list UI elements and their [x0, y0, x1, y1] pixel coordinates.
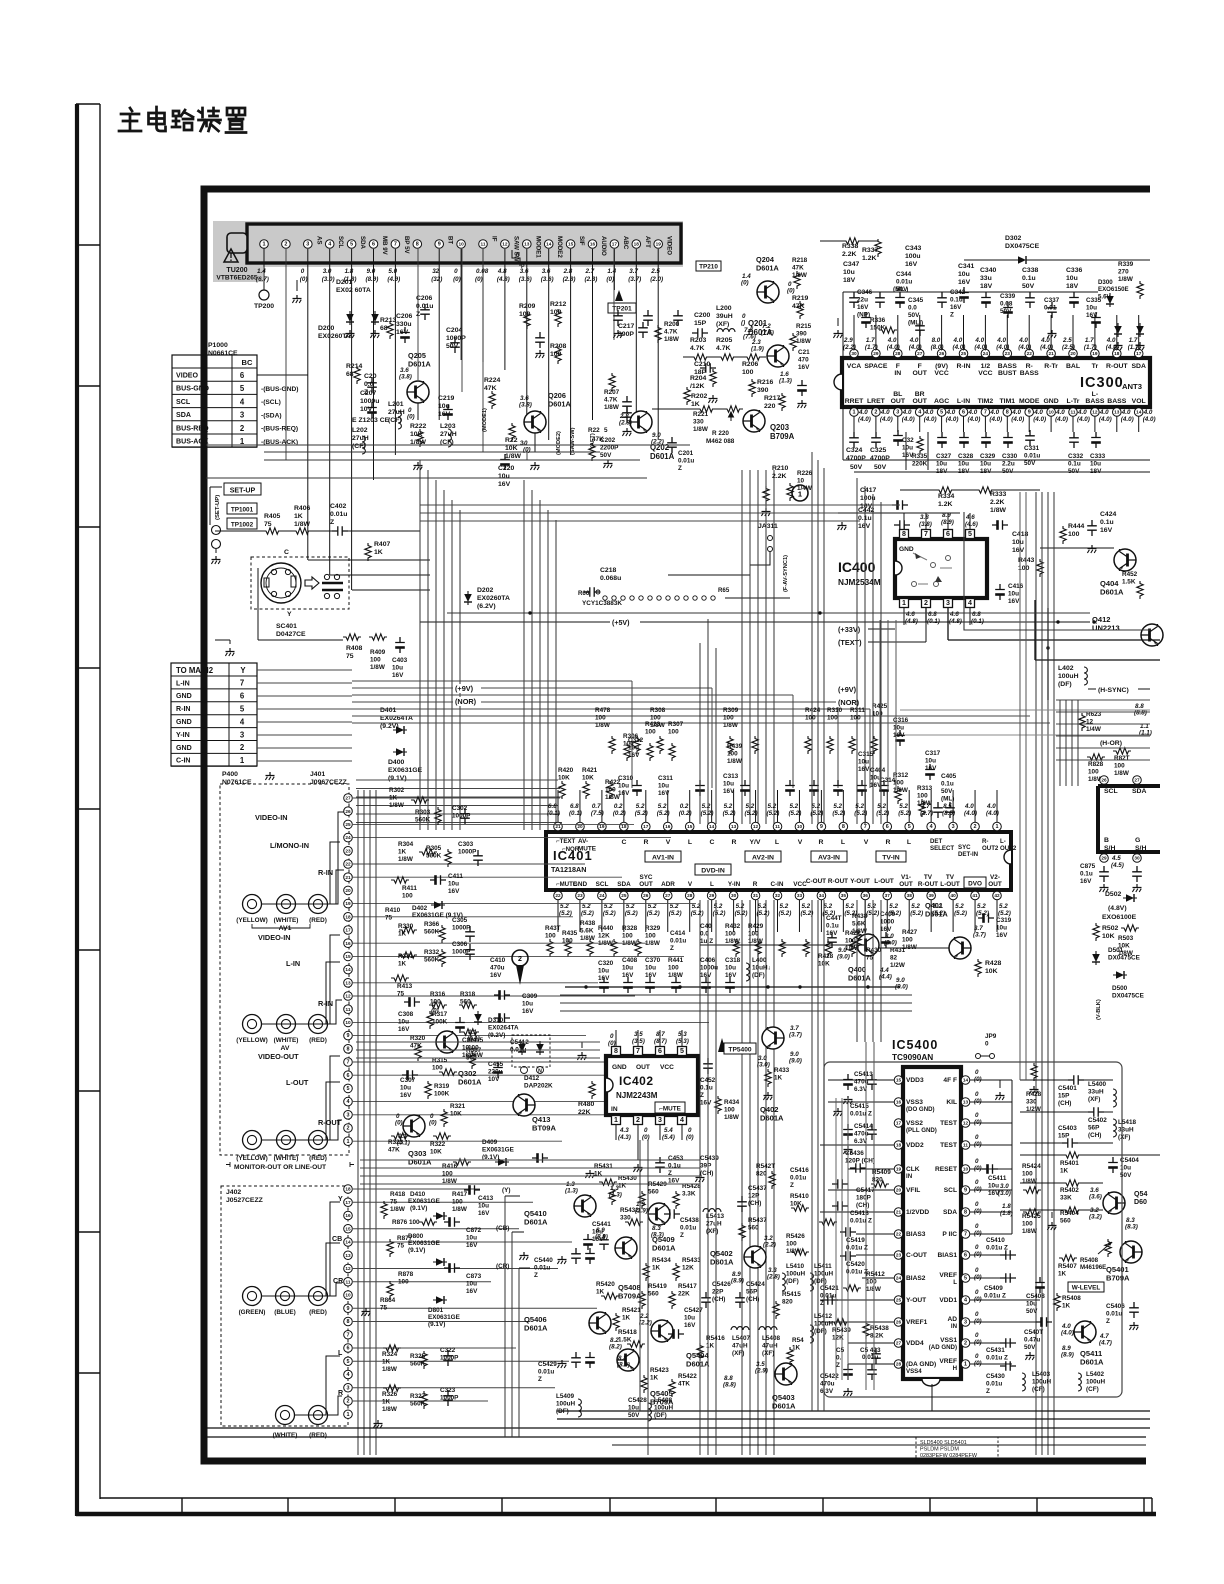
svg-text:5.6K: 5.6K — [580, 927, 594, 934]
capacitor C309 — [494, 1013, 510, 1023]
svg-text:4.0: 4.0 — [1055, 409, 1065, 416]
svg-text:(4.0): (4.0) — [1055, 416, 1068, 423]
svg-text:24: 24 — [345, 835, 351, 840]
svg-text:(3.2): (3.2) — [1089, 1214, 1102, 1221]
svg-text:(4.6): (4.6) — [965, 521, 978, 528]
svg-text:C338: C338 — [1022, 267, 1039, 274]
svg-text:24: 24 — [896, 1276, 902, 1281]
IC5400 pin 3 — [961, 1318, 970, 1327]
svg-text:R: R — [886, 839, 891, 846]
svg-text:YCY1C3883K: YCY1C3883K — [582, 600, 622, 607]
svg-text:10u: 10u — [980, 460, 991, 467]
svg-text:22K: 22K — [678, 1290, 690, 1297]
svg-text:C44T: C44T — [826, 915, 842, 922]
svg-text:TU200: TU200 — [226, 266, 247, 274]
svg-text:47K: 47K — [792, 303, 805, 310]
transistor Q413 — [513, 1094, 535, 1116]
inductor L5418 — [1113, 1119, 1116, 1137]
resistor R5429 — [639, 1191, 645, 1209]
svg-text:R366: R366 — [424, 921, 440, 928]
wire vbundle3 — [741, 470, 743, 824]
tuner pin 16 — [588, 240, 597, 249]
svg-text:68: 68 — [346, 371, 354, 378]
resistor R878 — [387, 1281, 393, 1299]
svg-text:C409: C409 — [880, 911, 896, 918]
svg-text:R330: R330 — [398, 923, 414, 930]
wire tuner pin 13 — [526, 249, 528, 415]
svg-text:R430: R430 — [866, 947, 882, 954]
svg-text:(8.3): (8.3) — [651, 1232, 664, 1239]
svg-text:0: 0 — [454, 268, 458, 275]
resistor R322 — [433, 1133, 451, 1139]
wire pin1 to TP200 — [263, 248, 265, 290]
svg-text:BASS: BASS — [1020, 370, 1039, 377]
svg-text:VOL: VOL — [1132, 398, 1146, 405]
ground gC876 — [1132, 884, 1141, 892]
svg-text:6.8: 6.8 — [570, 803, 579, 810]
capacitor C5417h — [832, 1179, 848, 1189]
svg-text:BUST: BUST — [998, 370, 1017, 377]
svg-text:(CH): (CH) — [856, 1202, 869, 1209]
resistor R302 — [411, 797, 429, 803]
svg-text:1.8: 1.8 — [1002, 1203, 1011, 1210]
tuner TU200 gray background — [213, 221, 683, 267]
resistor R409 — [369, 634, 387, 640]
svg-text:EXO6100E: EXO6100E — [1102, 914, 1137, 921]
J402 pin 12 — [344, 1264, 353, 1273]
svg-text:(4.8): (4.8) — [497, 276, 510, 283]
svg-text:5.2: 5.2 — [845, 903, 854, 910]
svg-text:R328: R328 — [622, 925, 638, 932]
svg-text:M462 088: M462 088 — [706, 438, 735, 445]
svg-text:C5408: C5408 — [1026, 1293, 1045, 1300]
IC300 bottom pin 9 — [1025, 408, 1034, 417]
IC300 bottom pin 6 — [959, 408, 968, 417]
IC300 top pin 18 — [1113, 349, 1122, 358]
wire hsync gray — [900, 709, 1150, 711]
IC401 box TV-IN — [876, 851, 906, 862]
svg-text:(6.7): (6.7) — [256, 276, 269, 283]
svg-text:4.7K: 4.7K — [716, 345, 730, 352]
svg-text:10uH↓: 10uH↓ — [752, 964, 771, 971]
svg-text:12: 12 — [502, 242, 508, 247]
svg-text:100: 100 — [668, 728, 679, 735]
svg-text:330: 330 — [620, 1214, 631, 1221]
svg-text:(1.8): (1.8) — [1000, 1210, 1013, 1217]
J401 pin 20 — [344, 886, 353, 895]
wire ic300 top bus — [843, 291, 1098, 293]
svg-text:L5408: L5408 — [762, 1335, 780, 1342]
svg-text:R416: R416 — [442, 1163, 458, 1170]
svg-text:P IIC: P IIC — [942, 1231, 957, 1238]
IC401 bottom pin 39 — [927, 891, 936, 900]
svg-text:27: 27 — [1134, 778, 1140, 783]
tuner pin 11 — [479, 240, 488, 249]
svg-text:18: 18 — [1114, 351, 1120, 356]
svg-text:TP201: TP201 — [612, 306, 632, 313]
IC402 pin 7 — [634, 1047, 643, 1056]
svg-text:1K: 1K — [1062, 1302, 1071, 1309]
capacitor C206a — [400, 327, 410, 343]
svg-text:10u: 10u — [893, 724, 904, 731]
svg-text:3.5: 3.5 — [634, 1031, 643, 1038]
svg-text:10u: 10u — [658, 782, 669, 789]
svg-text:C346: C346 — [857, 289, 873, 296]
capacitor C5409c — [1000, 1273, 1016, 1283]
svg-text:14: 14 — [345, 967, 351, 972]
svg-text:C5440: C5440 — [534, 1257, 553, 1264]
svg-text:R876 100: R876 100 — [392, 1219, 420, 1226]
svg-text:R305: R305 — [426, 845, 442, 852]
svg-text:(4.0): (4.0) — [953, 344, 966, 351]
svg-text:VSS3: VSS3 — [906, 1099, 923, 1106]
J401 pin 3 — [344, 1111, 353, 1120]
svg-text:6: 6 — [346, 1346, 349, 1352]
svg-text:R421: R421 — [582, 767, 598, 774]
inductor L201 — [398, 411, 401, 429]
svg-text:SDA: SDA — [1132, 788, 1146, 795]
svg-text:(ML ): (ML ) — [908, 319, 923, 326]
svg-text:C5429: C5429 — [538, 1361, 557, 1368]
svg-text:1K: 1K — [652, 1264, 661, 1271]
svg-text:4.0: 4.0 — [924, 409, 934, 416]
svg-text:(+9V): (+9V) — [455, 684, 474, 693]
svg-text:(5.2): (5.2) — [998, 910, 1011, 917]
svg-text:BASS: BASS — [1085, 398, 1104, 405]
svg-text:50V: 50V — [874, 464, 887, 471]
ground g1 — [535, 350, 544, 358]
svg-text:28: 28 — [895, 351, 901, 356]
svg-text:10u: 10u — [684, 1314, 695, 1321]
svg-text:8: 8 — [614, 1047, 618, 1055]
resistor R313c — [919, 799, 925, 817]
svg-text:180P: 180P — [856, 1194, 872, 1201]
svg-text:0.01u: 0.01u — [862, 1354, 878, 1361]
ground gC214 — [797, 400, 806, 408]
IC5400 pin 9 — [961, 1186, 970, 1195]
IC5400 pin 26 — [894, 1318, 903, 1327]
svg-text:(8.9): (8.9) — [366, 276, 379, 283]
wire vmid — [699, 643, 701, 824]
wire hbus main2 — [257, 669, 352, 671]
svg-text:7: 7 — [924, 530, 928, 538]
svg-text:0.01u Z: 0.01u Z — [984, 1292, 1006, 1299]
svg-text:4: 4 — [240, 397, 245, 406]
transistor Q203 — [743, 410, 765, 432]
svg-text:10u: 10u — [438, 403, 450, 410]
svg-text:JA311: JA311 — [758, 523, 778, 530]
svg-text:14: 14 — [345, 1240, 351, 1245]
svg-text:2: 2 — [874, 410, 877, 416]
svg-text:-(BUS-GND): -(BUS-GND) — [261, 386, 298, 393]
svg-text:1/2VDD: 1/2VDD — [906, 1209, 929, 1216]
J402 pin 14 — [344, 1238, 353, 1247]
svg-text:VIDEO-IN: VIDEO-IN — [258, 933, 291, 942]
svg-text:6: 6 — [886, 824, 889, 830]
svg-text:47K: 47K — [592, 436, 604, 443]
svg-text:1/8W: 1/8W — [389, 802, 404, 809]
transistor Q204 — [757, 281, 779, 303]
svg-text:(4.0): (4.0) — [1011, 416, 1024, 423]
wire hbus mid — [356, 779, 558, 781]
svg-text:AFT: AFT — [644, 236, 651, 248]
svg-text:47uH: 47uH — [732, 1342, 748, 1349]
svg-text:(4.0): (4.0) — [964, 810, 977, 817]
resistor R5420 — [601, 1293, 619, 1299]
capacitor C325 — [871, 432, 881, 448]
svg-text:15P: 15P — [1058, 1092, 1070, 1099]
svg-text:100K: 100K — [434, 1090, 450, 1097]
svg-text:Z: Z — [538, 1376, 542, 1383]
svg-text:18V: 18V — [980, 283, 993, 290]
svg-text:1/8W: 1/8W — [505, 453, 521, 460]
svg-text:100: 100 — [893, 779, 904, 786]
svg-text:47K: 47K — [388, 1146, 400, 1153]
svg-text:10: 10 — [963, 1167, 969, 1172]
IC5400 pin 4 — [961, 1296, 970, 1305]
svg-text:10: 10 — [1048, 410, 1054, 415]
svg-text:390: 390 — [796, 330, 807, 337]
svg-text:R332: R332 — [424, 949, 440, 956]
testpoint circles — [212, 526, 221, 535]
resistor R5434 — [643, 1263, 649, 1281]
svg-text:1K: 1K — [691, 401, 700, 408]
svg-text:0.01u: 0.01u — [330, 511, 347, 518]
svg-text:35: 35 — [841, 893, 847, 898]
capacitor C402 — [332, 526, 348, 536]
wire setup — [210, 486, 222, 488]
svg-text:SLD5400 SLD5401: SLD5400 SLD5401 — [920, 1440, 967, 1446]
svg-text:1000P: 1000P — [440, 1354, 459, 1361]
svg-text:5.6K: 5.6K — [852, 920, 866, 927]
svg-text:OUT: OUT — [912, 370, 927, 377]
connector J402 dashed box — [221, 1186, 348, 1426]
svg-text:(3.8): (3.8) — [399, 374, 412, 381]
svg-text:C305: C305 — [452, 917, 468, 924]
inductor L200 — [717, 329, 735, 332]
svg-text:N: N — [538, 1069, 542, 1075]
svg-text:R-IN: R-IN — [318, 868, 333, 877]
svg-text:16V: 16V — [950, 304, 962, 311]
svg-text:R202: R202 — [691, 393, 708, 400]
svg-text:C336: C336 — [1066, 267, 1083, 274]
svg-text:(9.2V): (9.2V) — [488, 1032, 505, 1039]
svg-text:560K: 560K — [424, 956, 440, 963]
svg-text:R5421: R5421 — [622, 1307, 641, 1314]
svg-text:1000P: 1000P — [446, 335, 466, 342]
svg-text:C332: C332 — [1068, 453, 1084, 460]
IC400 pin 6 — [944, 530, 953, 539]
wire tuner pin 6 — [373, 249, 375, 480]
svg-text:R5410: R5410 — [790, 1193, 809, 1200]
capacitor C324 — [849, 432, 859, 448]
svg-text:560: 560 — [1060, 1217, 1071, 1224]
svg-text:C-OUT: C-OUT — [806, 878, 826, 885]
svg-text:IC402: IC402 — [619, 1074, 654, 1088]
svg-text:BL: BL — [893, 391, 902, 398]
svg-text:R54: R54 — [792, 1337, 804, 1344]
IC5400 pin 6 — [961, 1251, 970, 1260]
svg-text:27: 27 — [665, 893, 671, 898]
ground gC875 — [1099, 884, 1108, 892]
IC401 top pin 8 — [839, 822, 848, 831]
capacitor C347 — [849, 292, 859, 308]
diode D301b — [1136, 323, 1144, 337]
svg-text:22K: 22K — [578, 1109, 591, 1116]
svg-text:L402: L402 — [1058, 665, 1074, 672]
wire vright — [1019, 492, 1021, 1080]
wire w3 — [352, 589, 430, 591]
svg-text:100uH: 100uH — [1086, 1378, 1105, 1385]
svg-text:BIAS3: BIAS3 — [906, 1231, 926, 1238]
resistor R502 — [1093, 923, 1099, 941]
svg-text:L-IN: L-IN — [957, 398, 970, 405]
resistor R317 — [427, 1011, 433, 1029]
svg-text:N: N — [516, 252, 520, 258]
svg-text:50V: 50V — [628, 1412, 640, 1419]
svg-text:C5402: C5402 — [1088, 1117, 1107, 1124]
resistor R321 — [441, 1109, 447, 1127]
svg-text:(1.9): (1.9) — [635, 1208, 648, 1215]
capacitor cm2 — [571, 1352, 581, 1368]
svg-text:D502: D502 — [1105, 891, 1122, 898]
svg-text:(9.1V): (9.1V) — [388, 775, 407, 782]
svg-text:4.0: 4.0 — [1099, 409, 1109, 416]
svg-text:0.1u: 0.1u — [1080, 870, 1093, 877]
IC300 bottom pin 14 — [1134, 408, 1143, 417]
svg-text:R215: R215 — [796, 323, 812, 330]
svg-text:P: P — [521, 264, 525, 270]
svg-text:0.068u: 0.068u — [600, 575, 621, 582]
svg-text:(8.8): (8.8) — [617, 1362, 630, 1369]
svg-text:18V: 18V — [1090, 468, 1102, 475]
svg-text:C347: C347 — [843, 261, 860, 268]
coil L5407 — [731, 1327, 749, 1330]
resistor R443 — [1037, 559, 1043, 577]
svg-text:UN2213: UN2213 — [1092, 624, 1120, 633]
J402 pin 3 — [344, 1383, 353, 1392]
svg-text:C5409: C5409 — [984, 1285, 1003, 1292]
svg-text:C307: C307 — [400, 1077, 416, 1084]
svg-text:16: 16 — [665, 824, 671, 829]
wire y513 — [838, 512, 960, 514]
svg-text:(4.0): (4.0) — [946, 416, 959, 423]
svg-text:3: 3 — [964, 1320, 967, 1326]
svg-text:100: 100 — [742, 369, 754, 376]
J401 pin 2 — [344, 1124, 353, 1133]
svg-text:16: 16 — [345, 1213, 351, 1218]
wire bottom line 5 — [612, 1444, 1146, 1446]
svg-text:1: 1 — [346, 1412, 349, 1418]
svg-text:2: 2 — [284, 242, 287, 248]
svg-text:1/8W: 1/8W — [1114, 770, 1129, 777]
svg-text:1.5K: 1.5K — [1122, 578, 1136, 585]
svg-text:JP9: JP9 — [985, 1033, 997, 1040]
svg-text:3: 3 — [240, 411, 245, 420]
rca jack AV1 white — [277, 895, 296, 914]
wire p1000 video — [257, 374, 308, 376]
svg-text:C220: C220 — [498, 465, 515, 472]
svg-text:R207: R207 — [604, 389, 620, 396]
svg-text:MODE2: MODE2 — [556, 236, 563, 258]
warning triangle — [224, 249, 238, 262]
svg-text:R5431: R5431 — [594, 1163, 613, 1170]
svg-text:27uH: 27uH — [352, 435, 369, 442]
svg-text:IN: IN — [906, 1173, 913, 1180]
svg-text:10u: 10u — [925, 757, 936, 764]
svg-text:C5403: C5403 — [1058, 1125, 1077, 1132]
svg-text:32: 32 — [432, 268, 439, 275]
svg-text:26: 26 — [939, 351, 945, 356]
svg-text:4700P: 4700P — [846, 455, 866, 462]
svg-text:Z: Z — [330, 519, 334, 526]
svg-text:5.2: 5.2 — [823, 903, 832, 910]
svg-text:16V: 16V — [645, 972, 657, 979]
IC401 top pin 9 — [817, 822, 826, 831]
svg-text:(NOR): (NOR) — [455, 697, 477, 706]
svg-text:0.01u: 0.01u — [538, 1368, 554, 1375]
box W-LEVEL — [1068, 1282, 1104, 1292]
svg-text:⌐MUTE: ⌐MUTE — [659, 1106, 681, 1113]
svg-text:L5400: L5400 — [1088, 1081, 1106, 1088]
resistor R5418 — [627, 1341, 645, 1347]
svg-text:AS: AS — [315, 236, 322, 245]
diode D401b — [393, 748, 407, 756]
IC400 pin 3 — [944, 599, 953, 608]
svg-text:M46196E: M46196E — [1080, 1264, 1106, 1271]
IC400 body — [895, 539, 987, 598]
svg-text:C329: C329 — [980, 453, 996, 460]
svg-text:50V: 50V — [1024, 1344, 1036, 1351]
capacitor C339 — [1003, 302, 1013, 318]
IC5400 pin 1 — [961, 1360, 970, 1369]
J401 pin 22 — [344, 860, 353, 869]
svg-text:16V: 16V — [448, 888, 460, 895]
transistor Q402 — [762, 1027, 784, 1049]
svg-text:0.01u: 0.01u — [790, 1174, 806, 1181]
svg-text:5.2: 5.2 — [877, 803, 886, 810]
svg-text:Q54: Q54 — [1134, 1190, 1147, 1198]
capacitor C336 — [1069, 292, 1079, 308]
svg-text:1/8W: 1/8W — [390, 1206, 405, 1213]
svg-text:4: 4 — [918, 410, 921, 416]
svg-text:B: B — [1104, 837, 1109, 844]
tuner pin 12 — [501, 240, 510, 249]
svg-text:220u: 220u — [488, 1068, 503, 1075]
svg-text:7: 7 — [394, 242, 397, 248]
svg-text:15: 15 — [568, 242, 574, 247]
svg-text:L5412: L5412 — [814, 1313, 832, 1320]
IC401 bottom pin 32 — [773, 891, 782, 900]
capacitor C200 — [692, 328, 708, 338]
svg-text:37: 37 — [885, 893, 891, 898]
svg-text:BIAS2: BIAS2 — [906, 1275, 926, 1282]
svg-text:(0): (0) — [300, 276, 308, 283]
IC5400 pin 11 — [961, 1141, 970, 1150]
svg-text:1/8W: 1/8W — [723, 722, 738, 729]
svg-text:C405: C405 — [941, 773, 957, 780]
svg-text:SELECT: SELECT — [930, 845, 954, 852]
svg-text:27: 27 — [896, 1341, 902, 1346]
svg-text:H: H — [953, 1365, 958, 1372]
svg-text:(8.2): (8.2) — [609, 1344, 622, 1351]
svg-text:(5.2): (5.2) — [910, 910, 923, 917]
box SLD5400 — [916, 1437, 998, 1462]
IC400 pin 5 — [966, 530, 975, 539]
IC401 bottom pin 27 — [663, 891, 672, 900]
svg-text:R5408: R5408 — [1062, 1295, 1081, 1302]
svg-text:9: 9 — [820, 824, 823, 830]
